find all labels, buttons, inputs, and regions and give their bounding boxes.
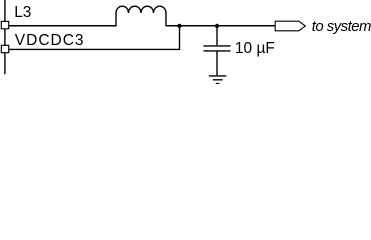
svg-text:L3: L3 xyxy=(14,4,31,21)
svg-text:VDCDC3: VDCDC3 xyxy=(15,32,85,49)
svg-text:to system: to system xyxy=(312,19,371,35)
svg-text:10 µF: 10 µF xyxy=(235,40,275,57)
